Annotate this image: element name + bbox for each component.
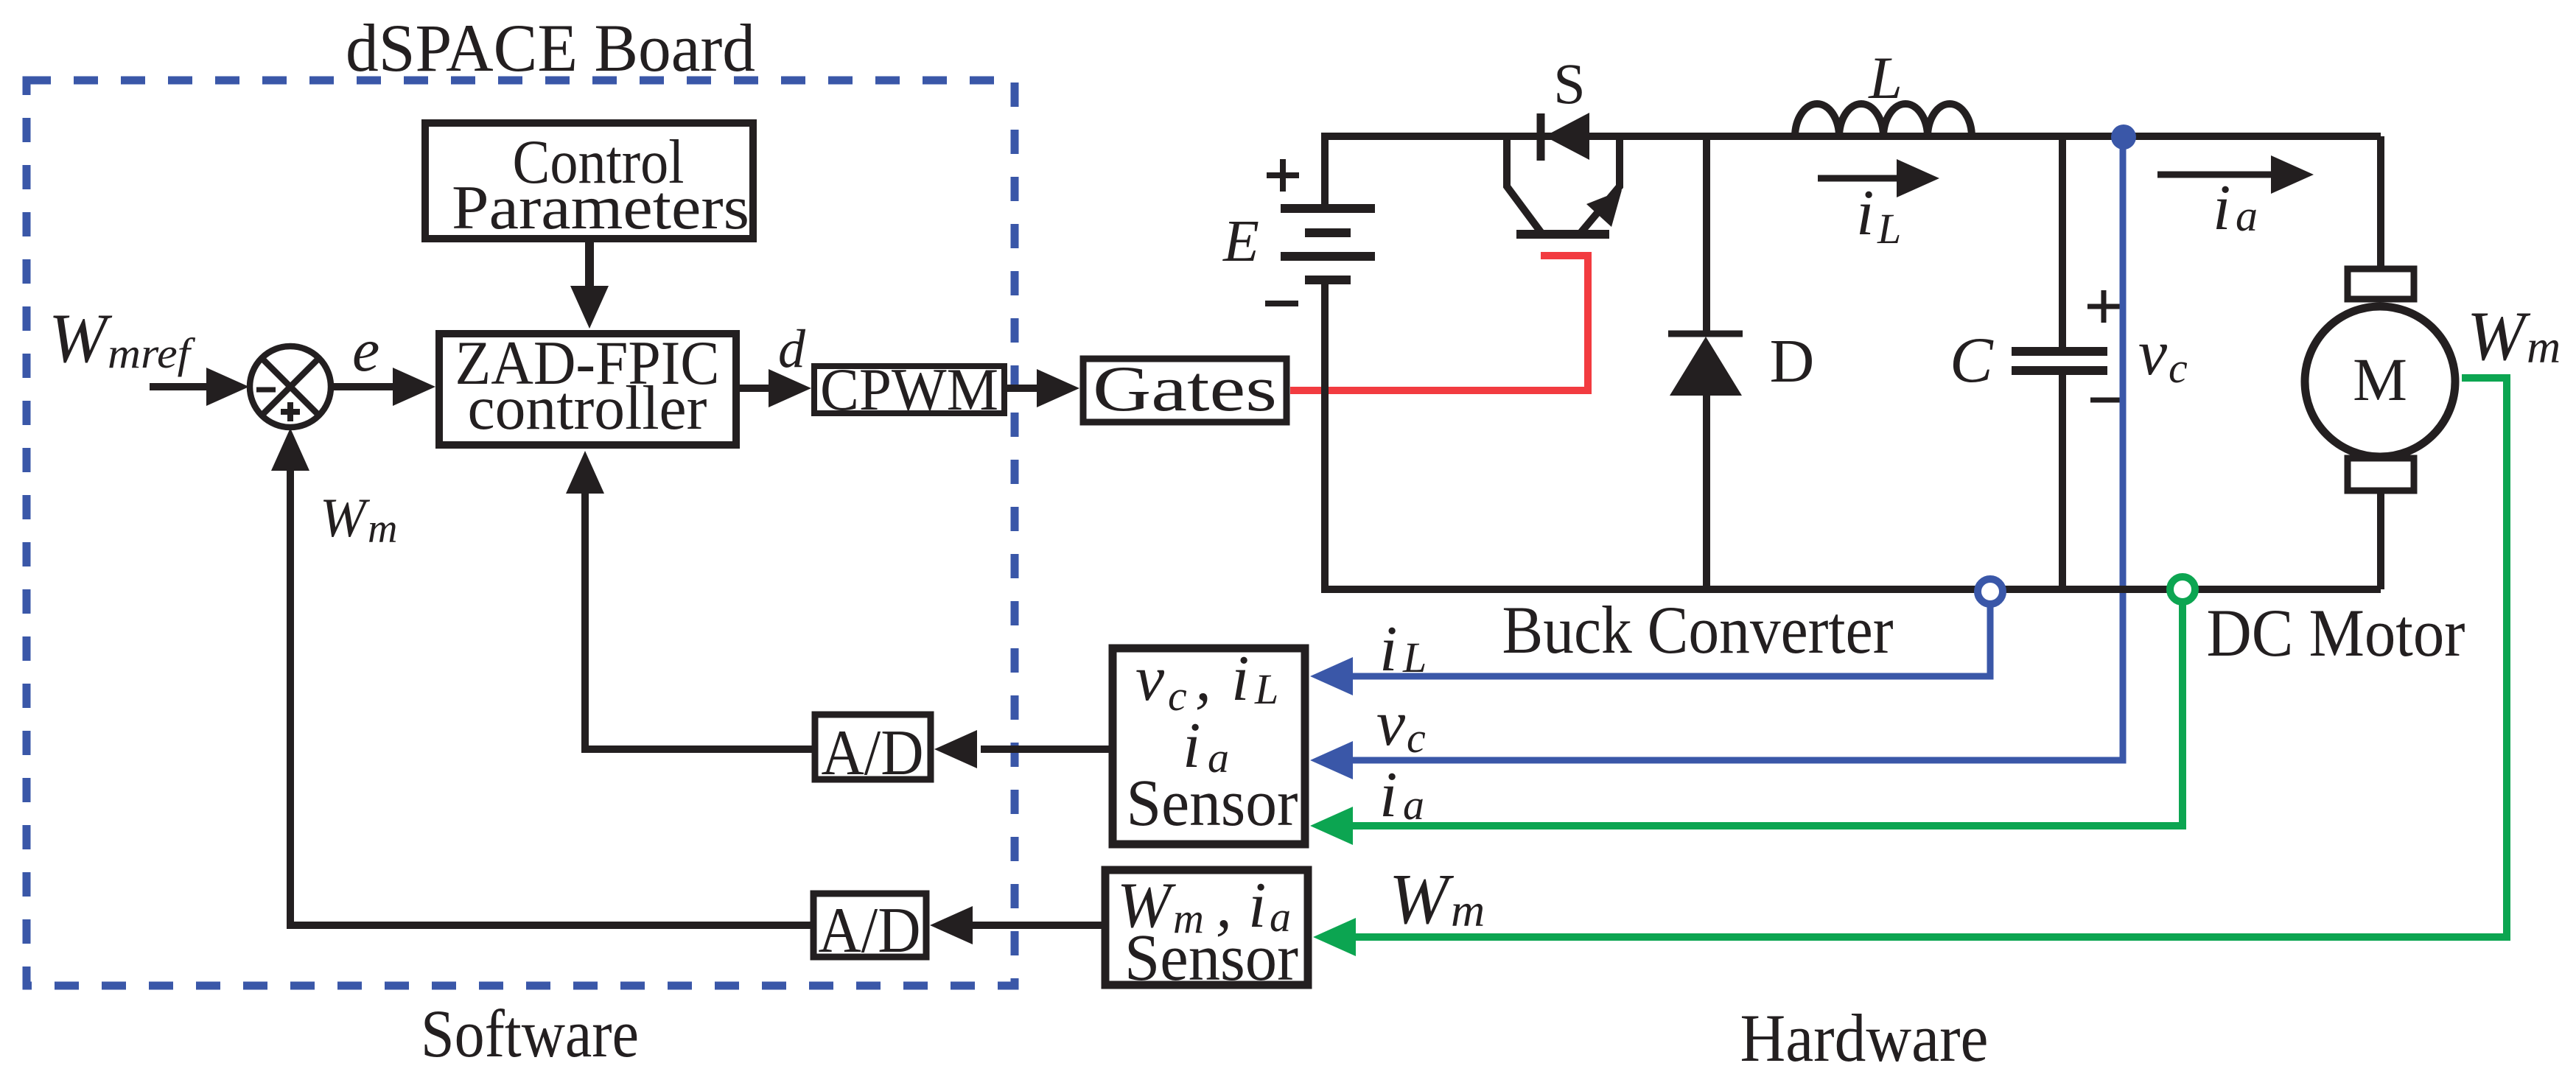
svg-text:S: S [1553,52,1585,116]
svg-text:M: M [2353,345,2407,413]
svg-text:Parameters: Parameters [452,173,749,242]
svg-text:d: d [778,319,806,379]
box A/D 2 [813,894,926,967]
summing junction [250,346,331,427]
svg-text:W: W [1389,860,1455,939]
node Wm motor label [2467,297,2561,375]
svg-text:,: , [1195,643,1211,715]
node iL current label [1856,178,1901,253]
node ia sense tap (green circle) [2170,577,2195,602]
svg-text:Sensor: Sensor [1127,767,1298,840]
svg-text:L: L [1402,634,1427,681]
wire sensor to A/D 2 [973,922,1105,929]
box ZAD-FPIC controller U1 [439,329,736,445]
wire Wm sense (green) [1351,378,2507,937]
svg-text:i: i [1231,643,1249,715]
svg-text:i: i [1379,759,1397,831]
svg-text:W: W [49,299,113,377]
svg-text:L: L [1254,665,1278,713]
node vc label [2138,318,2188,392]
wire Wmref input [150,383,210,390]
svg-text:m: m [1451,884,1485,936]
svg-text:D: D [1770,327,1815,396]
label ia feedback [1379,759,1424,831]
svg-text:Hardware: Hardware [1740,1000,1989,1076]
dashed dSPACE board boundary [27,80,1015,986]
svg-text:CPWM: CPWM [820,356,998,423]
box Control Parameters [425,123,753,242]
wire gate drive (red) [1290,256,1588,390]
wire vc sense (blue) [1348,140,2123,760]
svg-text:a: a [2236,192,2258,240]
svg-text:mref: mref [108,329,195,377]
motor M [2305,136,2455,589]
svg-text:DC Motor: DC Motor [2207,595,2465,670]
svg-text:i: i [1856,178,1874,249]
svg-text:c: c [2169,344,2188,392]
wire bottom rail [1325,586,2381,593]
wire Control Parameters to controller [585,242,594,289]
wire d: controller to CPWM [740,385,772,392]
svg-text:e: e [352,316,379,385]
svg-text:c: c [1407,714,1426,762]
inductor L [1795,104,1972,137]
wire A/D 2 to summing junction [290,469,813,925]
label vc feedback [1376,688,1426,762]
box Wm ia Sensor [1105,870,1308,994]
diode D [1668,136,1743,589]
svg-text:Buck Converter: Buck Converter [1502,592,1894,667]
node Wmref label [49,299,195,377]
svg-text:i: i [2213,172,2230,244]
wire A/D 1 to controller [585,491,815,749]
wire e: summing junction to controller [331,383,395,390]
battery minus sign [1265,301,1298,306]
wire top rail [1325,133,2381,140]
capacitor minus sign [2090,398,2120,403]
box A/D 1 [815,715,931,789]
arrow iL current [1818,175,1898,182]
svg-text:controller: controller [468,373,707,443]
svg-text:Gates: Gates [1093,354,1277,425]
node ia current label [2213,172,2258,244]
svg-text:m: m [368,506,397,552]
label Wm sense wire [1389,860,1485,939]
svg-text:a: a [1403,781,1424,829]
svg-text:W: W [2467,297,2531,375]
svg-text:i: i [1379,614,1397,685]
svg-text:Sensor: Sensor [1124,922,1298,994]
capacitor plus sign [2087,290,2120,323]
battery E [1281,133,1375,593]
svg-text:E: E [1222,209,1259,274]
transistor S [1507,113,1622,234]
svg-text:W: W [320,488,371,549]
svg-text:Software: Software [421,996,639,1071]
battery plus sign [1267,159,1299,192]
svg-text:m: m [2527,320,2561,373]
wire iL sense (blue) [1348,606,1990,676]
svg-text:dSPACE Board: dSPACE Board [346,10,755,85]
box vc iL ia Sensor [1113,643,1305,844]
svg-text:L: L [1877,205,1901,253]
wire CPWM to Gates [1007,385,1040,392]
svg-text:L: L [1868,44,1903,111]
wire sensor to A/D 1 [981,746,1113,753]
box Gates [1083,354,1287,425]
node vc sense dot (blue) [2111,124,2136,150]
svg-text:v: v [2138,318,2168,389]
box CPWM [814,356,1004,423]
svg-text:A/D: A/D [819,895,921,967]
svg-text:A/D: A/D [822,718,924,789]
label iL feedback [1379,614,1427,685]
arrow ia current (top) [2157,172,2272,178]
node iL sense tap (blue circle) [1978,579,2003,604]
svg-text:v: v [1376,688,1406,759]
svg-text:C: C [1950,325,1994,396]
node Wm feedback label (near junction) [320,488,397,552]
svg-text:v: v [1135,643,1165,715]
capacitor C [2012,136,2107,589]
wire ia sense (green) [1348,603,2183,826]
